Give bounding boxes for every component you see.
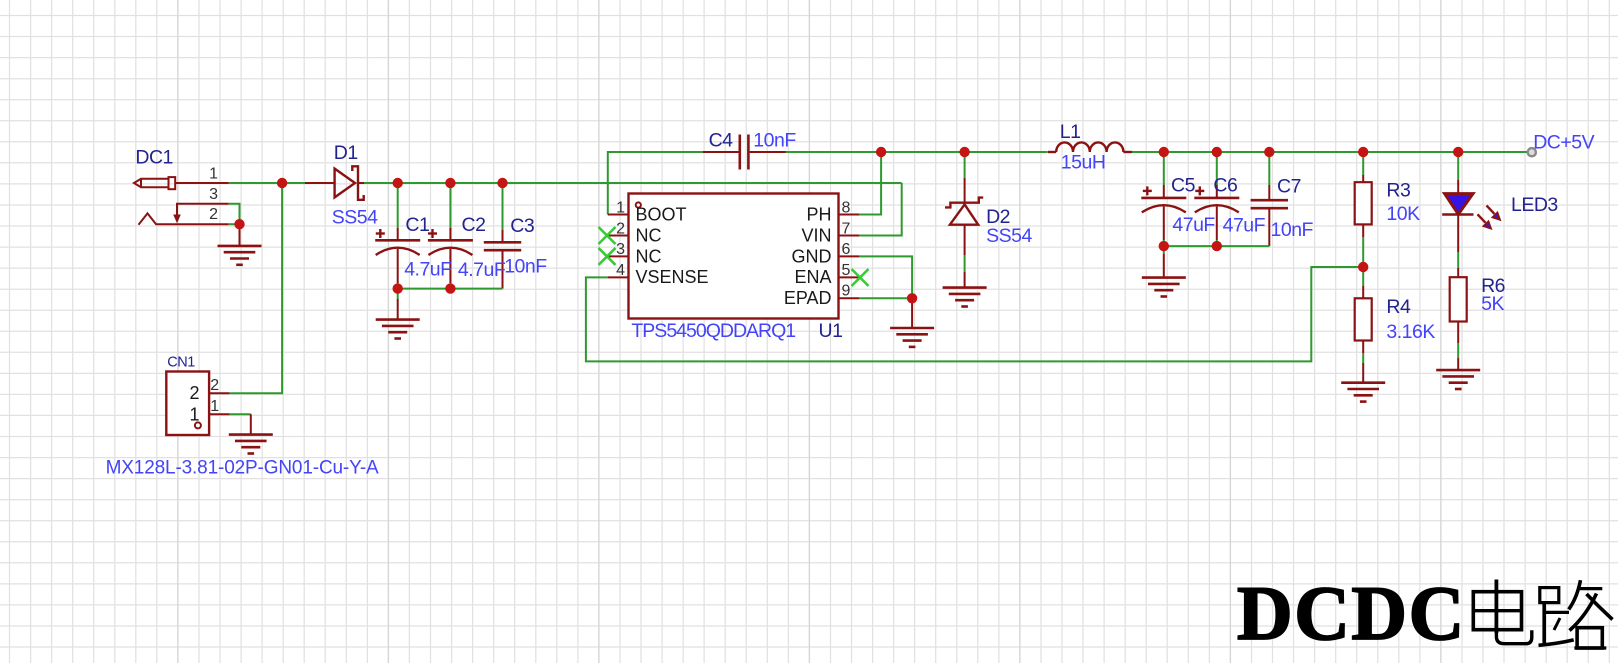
svg-text:3: 3 <box>209 186 218 203</box>
U1 pin 5 stub <box>839 276 860 278</box>
wire EPAD ground stem <box>911 298 913 328</box>
U1 pin 8 stub <box>839 214 860 216</box>
svg-text:VSENSE: VSENSE <box>636 267 709 287</box>
wire R3 bottom stem <box>1362 224 1364 267</box>
junction at C4 output <box>876 147 886 157</box>
svg-text:U1: U1 <box>819 320 843 342</box>
junction at C2 top <box>445 178 455 188</box>
wire C5 ground stem <box>1163 246 1165 278</box>
wire BOOT loop to C4 <box>608 152 881 215</box>
svg-text:4.7uF: 4.7uF <box>458 259 506 281</box>
wire EPAD pin9 to ground node <box>859 297 912 299</box>
svg-text:4.7uF: 4.7uF <box>404 258 452 280</box>
wire C7 bottom stem <box>1268 208 1270 246</box>
junction at C5 top <box>1159 147 1169 157</box>
svg-text:SS54: SS54 <box>986 225 1032 247</box>
svg-text:BOOT: BOOT <box>636 205 687 225</box>
connector DC1 barrel jack <box>134 177 229 225</box>
svg-text:1: 1 <box>189 404 199 424</box>
op-amp U1 TPS5450 body <box>629 194 839 319</box>
U1 pin 9 stub <box>839 297 860 299</box>
svg-text:5: 5 <box>842 262 851 279</box>
svg-text:R4: R4 <box>1386 296 1411 318</box>
svg-text:8: 8 <box>842 200 851 217</box>
resistor R6 <box>1450 277 1467 321</box>
svg-text:DC1: DC1 <box>135 147 173 169</box>
resistor R4 <box>1355 298 1372 340</box>
connector CN1 <box>166 372 229 436</box>
no-connect X pin 2 <box>599 227 616 244</box>
major grid lines <box>178 0 1441 663</box>
svg-text:C4: C4 <box>709 129 734 151</box>
svg-text:10K: 10K <box>1386 203 1420 225</box>
svg-text:C7: C7 <box>1277 176 1301 198</box>
svg-text:DC+5V: DC+5V <box>1533 132 1594 154</box>
wire LED3 top stem <box>1457 152 1459 194</box>
wire C6 top stem <box>1216 152 1218 198</box>
ground at D2 <box>943 288 987 307</box>
wire C1 bottom stem <box>397 249 399 289</box>
title glyph dian <box>1473 580 1532 644</box>
wire D1 output rail to VIN corner <box>358 182 902 184</box>
svg-text:EPAD: EPAD <box>784 288 832 308</box>
svg-text:4: 4 <box>616 262 625 279</box>
svg-text:R3: R3 <box>1386 179 1410 201</box>
svg-text:CN1: CN1 <box>167 354 195 370</box>
junction at R3-R4 feedback <box>1358 262 1368 272</box>
wire DC1 pin3 to pin2 node <box>176 204 240 225</box>
svg-text:MX128L-3.81-02P-GN01-Cu-Y-A: MX128L-3.81-02P-GN01-Cu-Y-A <box>106 457 379 478</box>
U1 pin 4 stub <box>608 276 629 278</box>
svg-text:NC: NC <box>636 226 662 246</box>
junction at D2 <box>959 147 969 157</box>
svg-text:L1: L1 <box>1060 121 1081 143</box>
junction at C6 top <box>1212 147 1222 157</box>
wire VSENSE feedback loop <box>586 267 1363 361</box>
capacitor C2 <box>428 229 473 255</box>
ground at DC1 <box>218 246 262 265</box>
svg-text:C6: C6 <box>1213 175 1237 197</box>
wire LED3 cathode to R6 <box>1457 215 1459 278</box>
U1 pin 7 stub <box>839 235 860 237</box>
wire GND pin6 to EPAD node <box>859 256 912 298</box>
wire R4 top stem <box>1362 267 1364 298</box>
no-connect X pin 3 <box>599 248 616 265</box>
junction at C6 bottom <box>1212 241 1222 251</box>
diode D2 SS54 <box>945 198 983 225</box>
svg-text:2: 2 <box>189 383 199 403</box>
svg-text:C2: C2 <box>462 214 486 236</box>
wire R4 ground stem <box>1362 341 1364 383</box>
U1 pin 2 stub <box>608 235 629 237</box>
U1 pin 6 stub <box>839 255 860 257</box>
ground at R4 <box>1341 383 1385 402</box>
svg-text:2: 2 <box>210 377 219 394</box>
wire C6 bottom stem <box>1216 207 1218 247</box>
junction at DC1 pins 2-3 <box>234 219 244 229</box>
ground at CN1 <box>229 435 273 454</box>
svg-text:NC: NC <box>636 246 662 266</box>
U1 pin1 marker circle <box>636 202 641 207</box>
svg-text:C5: C5 <box>1171 175 1196 197</box>
title glyph lu <box>1539 580 1613 648</box>
inductor L1 <box>1048 142 1132 152</box>
LED LED3 <box>1442 194 1501 230</box>
svg-text:1: 1 <box>209 166 218 183</box>
wire C1 top stem <box>397 183 399 240</box>
svg-text:10nF: 10nF <box>1271 219 1314 241</box>
capacitor C7 <box>1251 200 1288 208</box>
wire C2 top stem <box>449 183 451 240</box>
svg-text:1: 1 <box>616 200 625 217</box>
wire DC1 node down to CN1 pin2 <box>229 183 282 393</box>
net flag DC+5V terminal <box>1528 148 1536 156</box>
svg-text:1: 1 <box>210 398 219 415</box>
svg-text:7: 7 <box>842 220 851 237</box>
wire D2 top stem <box>964 152 966 178</box>
svg-text:3: 3 <box>616 241 625 258</box>
wire output rail PH to DC+5V <box>881 151 1528 153</box>
junction at C1 top <box>393 178 403 188</box>
svg-text:ENA: ENA <box>794 267 831 287</box>
svg-text:DCDC: DCDC <box>1237 570 1466 656</box>
svg-text:47uF: 47uF <box>1223 215 1266 237</box>
svg-text:9: 9 <box>842 283 851 300</box>
junction at DC1 output <box>277 178 287 188</box>
wire C2 bottom stem <box>449 249 451 289</box>
svg-text:10nF: 10nF <box>504 256 547 278</box>
diode D1 SS54 <box>335 166 364 200</box>
svg-text:2: 2 <box>616 220 625 237</box>
junction at C3 top <box>497 178 507 188</box>
junction at R3 top <box>1358 147 1368 157</box>
capacitor C4 <box>740 135 749 170</box>
U1 pin 1 stub <box>608 214 629 216</box>
no-connect X pin 5 ENA <box>852 269 869 286</box>
svg-text:15uH: 15uH <box>1061 152 1106 174</box>
resistor R3 <box>1355 182 1372 224</box>
svg-text:C1: C1 <box>405 214 429 236</box>
wire C5 top stem <box>1163 152 1165 198</box>
ground at R6 <box>1436 370 1480 389</box>
ground at input caps <box>376 320 420 339</box>
wire C7 top stem <box>1268 152 1270 200</box>
ground at C5 <box>1142 278 1186 297</box>
svg-text:LED3: LED3 <box>1511 194 1558 216</box>
wire C3 top stem <box>502 183 504 242</box>
wire C5 bottom stem <box>1163 207 1165 247</box>
svg-text:TPS5450QDDARQ1: TPS5450QDDARQ1 <box>631 320 795 342</box>
wire D2 anode stem <box>964 178 966 288</box>
svg-text:2: 2 <box>209 206 218 223</box>
wire C3 bottom stem <box>502 250 504 288</box>
svg-text:D1: D1 <box>334 142 358 164</box>
wire input rail from DC1 to D1 <box>229 182 335 184</box>
ground at EPAD <box>890 328 934 347</box>
wire output cap ground bus <box>1164 245 1270 247</box>
wire R3 top stem <box>1362 152 1364 182</box>
svg-text:SS54: SS54 <box>332 207 378 229</box>
svg-text:5K: 5K <box>1481 293 1504 315</box>
wire C1 ground stem <box>397 289 399 320</box>
svg-text:47uF: 47uF <box>1172 214 1215 236</box>
wire VIN drop to pin 7 <box>859 183 901 236</box>
wire input cap ground bus <box>398 288 503 290</box>
wire DC1 pin2 to ground node <box>156 224 240 246</box>
junction at LED3 top <box>1453 147 1463 157</box>
junction at C7 top <box>1264 147 1274 157</box>
wire R6 ground stem <box>1457 322 1459 371</box>
capacitor C1 <box>375 229 420 255</box>
wire CN1 pin1 to ground <box>229 414 250 434</box>
junction at C1 bottom <box>393 283 403 293</box>
svg-text:3.16K: 3.16K <box>1386 321 1435 343</box>
svg-text:VIN: VIN <box>801 226 831 246</box>
junction at C5 bottom <box>1159 241 1169 251</box>
capacitor C5 <box>1141 186 1186 212</box>
svg-text:GND: GND <box>792 246 832 266</box>
svg-text:6: 6 <box>842 241 851 258</box>
junction at C2 bottom <box>445 283 455 293</box>
svg-text:C3: C3 <box>510 215 534 237</box>
svg-text:10nF: 10nF <box>753 130 796 152</box>
wire PH drop from C4 junction to pin 8 <box>859 152 881 215</box>
svg-text:PH: PH <box>806 205 831 225</box>
junction at EPAD ground <box>907 293 917 303</box>
U1 pin 3 stub <box>608 255 629 257</box>
capacitor C6 <box>1194 186 1239 212</box>
capacitor C3 <box>484 242 521 250</box>
